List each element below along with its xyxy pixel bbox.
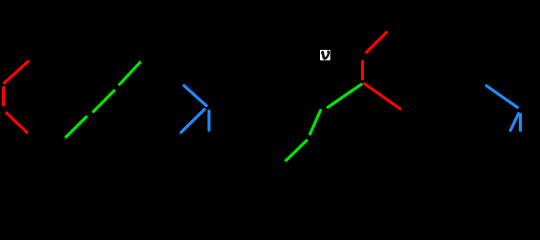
edge green dash G5 (right graph steep middle dash) <box>310 110 321 134</box>
edge green dash G2 (left graph diagonal, middle dash) <box>93 91 114 112</box>
node v label box <box>320 50 330 60</box>
edge red R2 (left graph left vertical) <box>2 88 5 106</box>
edge red R6 (right graph lower-right diagonal) <box>365 84 400 109</box>
edge red R3 (left graph lower-left diagonal) <box>7 113 27 133</box>
edge green dash G3 (left graph diagonal, upper dash) <box>120 63 140 85</box>
edge blue B1 (left graph diagonal into hub) <box>184 86 206 106</box>
edge blue B4 (right graph long diagonal into hub) <box>486 86 517 108</box>
edge red R5 (right graph short vertical) <box>361 62 364 80</box>
edge blue B2 (left graph hub to lower-left) <box>181 110 204 133</box>
edge blue B5 (right graph hub slanted left leg) <box>510 114 518 131</box>
edge green dash G4 (right graph lower dash) <box>286 141 307 161</box>
edge blue B6 (right graph hub vertical right leg) <box>519 114 522 130</box>
edge green dash G1 (left graph diagonal, lower dash) <box>66 117 86 137</box>
edge blue B3 (left graph hub vertical drop) <box>208 111 211 130</box>
edge red R4 (right graph upper diagonal) <box>366 32 386 52</box>
edge red R1 (left graph upper-left diagonal) <box>4 62 28 84</box>
edge green dash G6 (right graph long upper dash) <box>328 84 361 107</box>
node v label glyph (math italic v) <box>321 51 329 60</box>
